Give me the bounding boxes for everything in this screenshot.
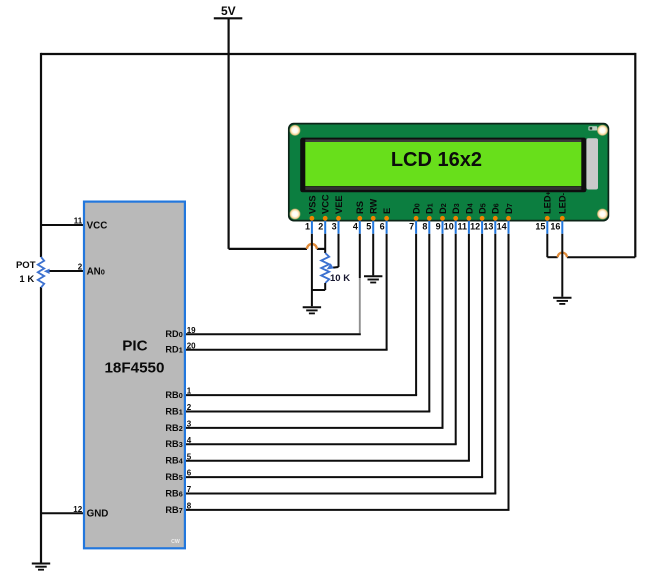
svg-text:RW: RW bbox=[369, 198, 379, 214]
svg-text:RS: RS bbox=[355, 201, 365, 214]
svg-text:1 K: 1 K bbox=[19, 274, 34, 285]
svg-text:E: E bbox=[382, 208, 392, 214]
svg-text:12: 12 bbox=[73, 505, 82, 514]
svg-text:RD1: RD1 bbox=[165, 345, 182, 355]
svg-text:11: 11 bbox=[457, 221, 467, 231]
svg-text:VEE: VEE bbox=[334, 195, 344, 214]
svg-text:2: 2 bbox=[318, 221, 323, 231]
svg-text:15: 15 bbox=[535, 221, 545, 231]
svg-text:5: 5 bbox=[187, 452, 192, 461]
svg-text:D4: D4 bbox=[464, 203, 474, 214]
svg-text:13: 13 bbox=[483, 221, 493, 231]
svg-text:12: 12 bbox=[470, 221, 480, 231]
svg-text:D7: D7 bbox=[504, 203, 514, 214]
svg-text:RB3: RB3 bbox=[165, 439, 182, 449]
svg-text:RB6: RB6 bbox=[165, 488, 182, 498]
svg-text:7: 7 bbox=[187, 485, 192, 494]
svg-text:LED-: LED- bbox=[558, 192, 568, 214]
svg-text:8: 8 bbox=[187, 502, 192, 511]
svg-text:4: 4 bbox=[187, 436, 192, 445]
svg-text:AN0: AN0 bbox=[87, 267, 105, 278]
svg-text:RB4: RB4 bbox=[165, 456, 182, 466]
svg-text:D5: D5 bbox=[478, 203, 488, 214]
svg-text:D0: D0 bbox=[412, 203, 422, 214]
svg-text:3: 3 bbox=[332, 221, 337, 231]
svg-text:8: 8 bbox=[422, 221, 427, 231]
svg-text:D1: D1 bbox=[425, 203, 435, 214]
svg-text:16: 16 bbox=[550, 221, 560, 231]
svg-text:14: 14 bbox=[497, 221, 507, 231]
svg-text:GND: GND bbox=[87, 509, 109, 520]
svg-text:RB2: RB2 bbox=[165, 423, 182, 433]
svg-text:6: 6 bbox=[187, 469, 192, 478]
svg-text:1: 1 bbox=[187, 387, 192, 396]
svg-text:D2: D2 bbox=[438, 203, 448, 214]
svg-text:3: 3 bbox=[187, 420, 192, 429]
svg-text:RB7: RB7 bbox=[165, 505, 182, 515]
svg-text:5V: 5V bbox=[221, 4, 236, 18]
svg-text:RD0: RD0 bbox=[165, 329, 182, 339]
svg-text:D3: D3 bbox=[451, 203, 461, 214]
svg-text:7: 7 bbox=[409, 221, 414, 231]
svg-text:LED+: LED+ bbox=[543, 191, 553, 214]
svg-text:LCD 16x2: LCD 16x2 bbox=[391, 149, 482, 171]
svg-text:POT: POT bbox=[16, 260, 36, 271]
svg-text:1: 1 bbox=[305, 221, 310, 231]
svg-text:19: 19 bbox=[187, 326, 196, 335]
svg-text:VCC: VCC bbox=[87, 220, 108, 231]
svg-text:18F4550: 18F4550 bbox=[104, 359, 164, 376]
svg-text:11: 11 bbox=[74, 217, 83, 226]
svg-text:10 K: 10 K bbox=[330, 273, 350, 284]
svg-text:20: 20 bbox=[187, 341, 196, 350]
svg-text:PIC: PIC bbox=[122, 337, 147, 354]
svg-text:RB0: RB0 bbox=[165, 390, 182, 400]
svg-text:4: 4 bbox=[353, 221, 358, 231]
svg-text:2: 2 bbox=[78, 263, 83, 272]
svg-text:9: 9 bbox=[436, 221, 441, 231]
svg-text:VCC: VCC bbox=[321, 194, 331, 214]
svg-text:2: 2 bbox=[187, 403, 192, 412]
svg-text:RB5: RB5 bbox=[165, 472, 182, 482]
svg-text:CW: CW bbox=[171, 539, 180, 545]
svg-text:D6: D6 bbox=[491, 203, 501, 214]
svg-text:5: 5 bbox=[366, 221, 371, 231]
svg-text:10: 10 bbox=[444, 221, 454, 231]
svg-text:RB1: RB1 bbox=[165, 406, 182, 416]
svg-text:VSS: VSS bbox=[307, 195, 317, 214]
svg-text:6: 6 bbox=[380, 221, 385, 231]
